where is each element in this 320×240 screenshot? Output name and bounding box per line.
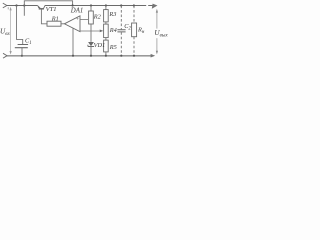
- node input junction (C1 tap): [15, 4, 17, 6]
- svg-text:R1: R1: [51, 15, 59, 22]
- wire DA1 lower input to R4 wiper: [80, 30, 100, 32]
- resistor R1: [47, 21, 61, 26]
- wire Rn top lead dashed: [133, 6, 135, 24]
- node R5 bottom junction: [105, 55, 107, 57]
- label Uvyx: [154, 29, 169, 39]
- svg-text:VT1: VT1: [46, 6, 57, 13]
- zener diode VD1: [88, 42, 94, 47]
- wire R2 to VD1: [90, 24, 92, 42]
- input terminal arrow top: [3, 3, 7, 8]
- node DA1 common junction: [72, 55, 74, 57]
- resistor R2: [89, 11, 94, 24]
- capacitor C2: [117, 30, 125, 32]
- wire Rn bottom lead dashed: [133, 37, 135, 56]
- voltage arrow Uvyx: [156, 9, 158, 55]
- wire C2 top lead dashed: [120, 6, 122, 30]
- resistor R5: [104, 40, 109, 52]
- wire top bypass arc: [24, 1, 72, 16]
- node R3 junction: [105, 4, 107, 6]
- wire bottom rail: [7, 55, 151, 57]
- wire top rail right segment: [45, 5, 155, 7]
- node R2 junction: [90, 4, 92, 6]
- node Rn bottom junction: [133, 55, 135, 57]
- svg-text:VD1: VD1: [94, 42, 106, 49]
- capacitor C1: [15, 45, 28, 48]
- wire VD1 bottom lead: [90, 47, 92, 56]
- output terminal arrow top: [152, 4, 158, 9]
- svg-text:R2: R2: [93, 14, 102, 21]
- node C2 bottom junction: [120, 55, 122, 57]
- wire C1 branch: [17, 6, 23, 45]
- resistor R3: [104, 10, 109, 22]
- voltage arrow Uvx: [10, 7, 12, 55]
- node VD1 bottom junction: [90, 55, 92, 57]
- node input tick: [7, 7, 9, 9]
- wire VT1 base lead: [41, 10, 47, 24]
- wire C2 bottom lead dashed: [120, 32, 122, 56]
- svg-text:+: +: [76, 18, 79, 23]
- input terminal arrow bottom: [3, 53, 7, 58]
- wire top rail left segment: [6, 5, 37, 7]
- wire DA1 upper input: [80, 18, 88, 20]
- svg-text:R4: R4: [109, 27, 117, 34]
- wire R5 bottom lead: [105, 52, 107, 56]
- node DA1 supply junction: [72, 4, 74, 6]
- node C2 junction: [120, 4, 122, 6]
- node Rn junction: [133, 4, 135, 6]
- wire R1 to DA1: [61, 23, 64, 25]
- wire R4 to R5: [105, 38, 107, 41]
- node C1 bottom junction: [21, 55, 23, 57]
- wire R3 top lead: [105, 6, 107, 10]
- wire R3 to R4: [105, 22, 107, 24]
- potentiometer R4: [104, 24, 109, 37]
- output terminal arrow bottom: [151, 54, 156, 58]
- node rail crossing: [23, 4, 25, 6]
- wire R2 top lead: [90, 6, 92, 12]
- transistor VT1: [37, 6, 45, 9]
- wire DA1 common lead: [72, 28, 74, 55]
- wire C1 bottom lead: [21, 48, 23, 56]
- op-amp DA1: [64, 16, 80, 32]
- resistor Rn: [132, 23, 137, 37]
- svg-text:R5: R5: [109, 44, 117, 51]
- svg-text:R3: R3: [108, 11, 116, 18]
- svg-text:DA1: DA1: [70, 8, 83, 15]
